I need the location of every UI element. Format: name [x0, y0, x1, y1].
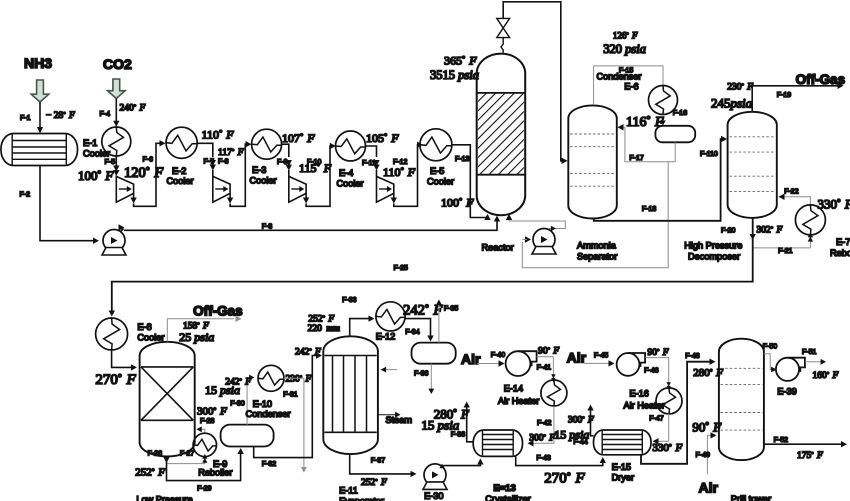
low pressure decomposer vessel	[140, 342, 195, 457]
svg-text:E-8: E-8	[137, 322, 151, 332]
svg-text:Cooler: Cooler	[167, 176, 194, 186]
svg-text:Reboiler: Reboiler	[830, 248, 850, 258]
svg-text:F-41: F-41	[537, 365, 552, 372]
wire pump P2 suction from drum	[522, 162, 668, 268]
blower E-39	[776, 358, 805, 381]
svg-text:High Pressure: High Pressure	[684, 241, 742, 251]
steam inlet stub	[381, 369, 397, 371]
wire air to E-16 blower	[584, 362, 610, 364]
svg-text:F-1: F-1	[20, 115, 31, 122]
svg-text:105° F: 105° F	[366, 131, 399, 145]
condenser E-6	[649, 86, 678, 115]
high pressure decomposer vessel	[728, 112, 777, 218]
svg-text:E-15: E-15	[612, 462, 631, 472]
svg-text:F-43: F-43	[536, 455, 551, 462]
svg-text:252° F: 252° F	[361, 478, 387, 488]
svg-text:E=13: E=13	[493, 483, 515, 494]
wire F-37	[350, 454, 412, 474]
wire F-19 off-gas	[752, 86, 838, 112]
svg-text:E-11: E-11	[339, 486, 358, 496]
wire F-29 LP bottoms	[167, 450, 241, 481]
svg-text:E-10: E-10	[253, 399, 272, 409]
reactor vessel	[477, 54, 526, 216]
svg-text:300° F: 300° F	[568, 416, 594, 426]
pump P2	[532, 229, 556, 255]
wire F-20 F-25 main recycle line	[112, 218, 753, 312]
svg-text:Ammonia: Ammonia	[577, 241, 617, 251]
dryer E-15	[594, 430, 652, 455]
svg-text:120° F: 120° F	[124, 165, 163, 181]
svg-text:F-4: F-4	[100, 111, 111, 118]
svg-text:Air Heater: Air Heater	[624, 401, 665, 411]
svg-text:E-5: E-5	[430, 166, 444, 176]
wire F-21 to E-7	[753, 241, 811, 248]
svg-text:F-110: F-110	[700, 151, 718, 158]
svg-text:F-36: F-36	[414, 371, 429, 378]
wire F-32 to evaporator	[254, 356, 317, 458]
svg-text:330° F: 330° F	[652, 442, 682, 454]
svg-text:Off-Gas: Off-Gas	[796, 72, 846, 87]
svg-text:365° F: 365° F	[444, 54, 477, 68]
svg-text:F-5: F-5	[105, 159, 116, 166]
svg-text:175° F: 175° F	[797, 451, 823, 461]
svg-text:NH3: NH3	[24, 55, 52, 71]
svg-text:F-28: F-28	[200, 418, 215, 425]
cooler E-2	[166, 127, 197, 158]
wire F-4 into E-1	[115, 99, 117, 127]
NH3 feed arrow	[31, 80, 49, 102]
svg-text:15 psia: 15 psia	[205, 383, 240, 397]
svg-text:F-18: F-18	[642, 206, 657, 213]
air heater E-16 coil	[656, 388, 682, 414]
svg-text:F-10: F-10	[307, 159, 322, 166]
svg-text:E-39: E-39	[777, 387, 796, 397]
wire C3 outlet to E-4	[305, 193, 307, 199]
svg-text:Off-Gas: Off-Gas	[193, 304, 243, 319]
wire F-44 vent	[591, 408, 594, 436]
svg-text:F-2: F-2	[20, 192, 31, 199]
svg-text:Dryer: Dryer	[612, 473, 634, 483]
wire F-17	[622, 127, 675, 161]
svg-text:220 mm: 220 mm	[308, 324, 340, 334]
svg-text:F-32: F-32	[262, 461, 277, 468]
CO2 feed arrow	[108, 79, 126, 99]
svg-text:100° F: 100° F	[78, 168, 114, 183]
svg-text:F-40: F-40	[491, 352, 506, 359]
wire F-15 separator overhead	[594, 66, 663, 105]
svg-text:240° F: 240° F	[120, 104, 146, 114]
svg-text:320 psia: 320 psia	[603, 42, 646, 56]
ammonia separator vessel	[568, 105, 617, 218]
svg-text:90° F: 90° F	[692, 420, 722, 435]
wire E-2 outlet	[197, 143, 213, 157]
wire E-3 outlet	[282, 144, 289, 157]
svg-text:F-29: F-29	[197, 486, 212, 493]
svg-text:15 psia: 15 psia	[421, 418, 459, 433]
svg-text:F-17: F-17	[629, 155, 644, 162]
wire E-30 discharge to crystallizer	[442, 460, 481, 467]
svg-text:3515 psia: 3515 psia	[430, 68, 479, 82]
blower E-16 fan	[617, 353, 646, 376]
reboiler E-7	[795, 205, 825, 235]
flash drum	[412, 343, 456, 364]
svg-text:160° F: 160° F	[813, 371, 839, 381]
svg-text:Decomposer: Decomposer	[688, 252, 740, 262]
wire C2 outlet to E-3	[229, 193, 231, 199]
wire reactor top to separator	[501, 38, 503, 53]
wire F-36	[430, 364, 432, 390]
svg-text:E-2: E-2	[172, 166, 186, 176]
blower E-14 fan	[506, 351, 537, 376]
svg-text:Prill tower: Prill tower	[731, 494, 771, 501]
svg-text:F-48: F-48	[685, 353, 700, 360]
wire F-35 vent	[438, 304, 440, 343]
svg-text:F-27: F-27	[180, 451, 195, 458]
svg-text:Evaporator: Evaporator	[339, 496, 384, 501]
svg-text:F-49: F-49	[696, 452, 711, 459]
condenser E-10	[258, 365, 284, 391]
svg-text:E-4: E-4	[339, 168, 353, 178]
svg-text:F-20: F-20	[721, 228, 736, 235]
svg-text:F-13: F-13	[455, 156, 470, 163]
steam outlet	[378, 414, 396, 416]
wire F-22 E-7 return	[782, 197, 810, 205]
svg-text:F-47: F-47	[649, 416, 664, 423]
LP decomposer internals X	[141, 366, 193, 368]
svg-text:126° F: 126° F	[613, 31, 638, 41]
wire F-50 to E-39	[764, 354, 773, 370]
svg-text:F-21: F-21	[778, 248, 793, 255]
node reactor bottom feeds	[509, 220, 566, 222]
reactor catalyst hatched section	[478, 93, 524, 175]
svg-text:Reactor: Reactor	[482, 243, 514, 253]
condensate drum	[655, 126, 695, 143]
wire E-6 to drum	[662, 115, 664, 123]
svg-text:F-3: F-3	[262, 224, 273, 231]
svg-text:F-50: F-50	[763, 344, 778, 351]
svg-text:E-6: E-6	[624, 82, 638, 92]
NH3 feed exchanger drum	[1, 134, 78, 166]
svg-text:CO2: CO2	[103, 56, 132, 72]
wire F-52 product	[764, 443, 842, 445]
compressor C1	[116, 176, 133, 202]
svg-text:230° F: 230° F	[286, 375, 312, 385]
svg-text:Cooler: Cooler	[427, 177, 454, 187]
wire F-5	[115, 156, 117, 167]
wire air to prill tower	[707, 435, 712, 474]
evaporator E-11 vessel	[323, 336, 378, 454]
svg-text:110° F: 110° F	[383, 165, 416, 179]
svg-text:230° F: 230° F	[727, 83, 753, 93]
svg-text:270° F: 270° F	[544, 471, 585, 487]
svg-text:Reboiler: Reboiler	[198, 468, 232, 478]
svg-text:E-30: E-30	[424, 491, 443, 501]
svg-text:Air: Air	[699, 480, 719, 496]
svg-text:25 psia: 25 psia	[179, 330, 214, 344]
svg-text:F-22: F-22	[784, 189, 799, 196]
valve on reactor feed	[497, 18, 510, 37]
svg-text:F-25: F-25	[394, 265, 409, 272]
cooler E-12	[376, 302, 405, 331]
svg-text:E-16: E-16	[629, 389, 648, 399]
svg-text:F-42: F-42	[537, 420, 552, 427]
evaporator tube internals	[325, 355, 377, 357]
svg-text:Air: Air	[567, 350, 587, 366]
svg-text:90° F: 90° F	[538, 347, 559, 357]
svg-text:F-46: F-46	[644, 368, 659, 375]
svg-text:Low Pressure: Low Pressure	[136, 495, 192, 501]
wire F-1 into exchanger	[39, 102, 41, 132]
prill tower vessel	[719, 339, 764, 460]
svg-text:F-16: F-16	[673, 110, 688, 117]
svg-text:300° F: 300° F	[197, 406, 227, 418]
wire pump P2 discharge	[549, 221, 565, 229]
svg-text:F-19: F-19	[777, 92, 792, 99]
wire E-9 return	[200, 429, 205, 433]
wire E-12 outlet to flash drum	[405, 319, 430, 337]
svg-text:110° F: 110° F	[202, 128, 235, 142]
svg-text:Condenser: Condenser	[246, 409, 291, 419]
svg-text:245psia: 245psia	[711, 96, 753, 111]
wire F-110	[594, 139, 722, 221]
svg-text:Cooler: Cooler	[337, 179, 364, 189]
reboiler E-9	[193, 433, 216, 456]
svg-text:F-8: F-8	[218, 159, 229, 166]
svg-text:Steam: Steam	[386, 415, 413, 425]
wire blower to heater	[537, 357, 554, 375]
svg-text:E-7: E-7	[836, 237, 850, 247]
svg-text:Cooler: Cooler	[83, 149, 110, 159]
svg-text:Separator: Separator	[577, 252, 617, 262]
svg-text:E-1: E-1	[83, 138, 97, 148]
svg-text:F-52: F-52	[774, 437, 789, 444]
cooler E-3	[252, 129, 282, 159]
svg-text:F-33: F-33	[342, 297, 357, 304]
wire dryer outlet to prill tower	[641, 362, 711, 464]
wire LP off-gas	[167, 319, 234, 342]
wire E-4 outlet	[366, 146, 377, 157]
wire crystallizer outlet to dryer	[516, 456, 603, 465]
svg-text:100° F: 100° F	[441, 196, 474, 210]
svg-text:F-12: F-12	[393, 159, 408, 166]
wire F-2	[40, 166, 95, 241]
svg-text:Crystallizer: Crystallizer	[485, 494, 530, 501]
E-10 condensate drum	[221, 425, 274, 447]
svg-text:F-44: F-44	[573, 439, 588, 446]
svg-text:300° F: 300° F	[529, 434, 555, 444]
wire E-8 to LP decomposer	[112, 350, 132, 367]
svg-text:107° F: 107° F	[282, 131, 315, 145]
svg-text:− 28° F: − 28° F	[46, 111, 75, 121]
svg-text:242° F: 242° F	[295, 348, 321, 358]
svg-text:Air: Air	[461, 351, 481, 367]
air heater E-14 coil	[541, 380, 567, 406]
svg-text:F-34: F-34	[405, 329, 420, 336]
wire F-33 to E-12	[350, 319, 370, 336]
svg-text:E-14: E-14	[504, 384, 523, 394]
wire F-30	[247, 378, 250, 425]
crystallizer E-13	[473, 430, 522, 456]
svg-text:F-37: F-37	[371, 458, 386, 465]
svg-text:Cooler: Cooler	[137, 333, 164, 343]
svg-text:330° F: 330° F	[818, 197, 850, 212]
wire F-38 vent	[467, 405, 474, 442]
compressor C2	[213, 176, 230, 202]
compressor C4	[377, 176, 394, 202]
svg-text:F-6: F-6	[143, 157, 154, 164]
wire to E-9	[167, 460, 205, 464]
wire F-3 pump discharge	[121, 229, 124, 232]
svg-text:F-38: F-38	[451, 432, 466, 439]
svg-text:270° F: 270° F	[95, 372, 136, 388]
wire E-14 heater to crystallizer	[531, 406, 554, 443]
svg-text:F-45: F-45	[594, 353, 609, 360]
svg-text:302° F: 302° F	[757, 226, 783, 236]
svg-text:E-3: E-3	[252, 165, 266, 175]
svg-text:117° F: 117° F	[218, 148, 244, 158]
cooler E-8	[96, 318, 128, 350]
cooler E-5	[420, 129, 452, 161]
wire E-5 outlet to reactor	[452, 145, 488, 218]
pump P1	[102, 230, 126, 256]
compressor C3	[289, 176, 306, 202]
svg-text:F-30: F-30	[230, 401, 245, 408]
cooler E-1	[102, 127, 131, 156]
svg-text:F-35: F-35	[444, 306, 459, 313]
wire E-16 heater to dryer	[658, 414, 669, 441]
svg-text:Cooler: Cooler	[250, 176, 277, 186]
wire C4 outlet to E-5	[393, 193, 395, 199]
svg-text:Condenser: Condenser	[597, 72, 642, 82]
svg-text:E-12: E-12	[376, 332, 395, 342]
wire E-10 outlet	[284, 378, 304, 468]
cooler E-4	[336, 131, 366, 161]
pump E-30	[423, 464, 447, 490]
svg-text:F-31: F-31	[283, 392, 298, 399]
svg-text:90° F: 90° F	[648, 348, 669, 358]
wire blower to heater	[645, 358, 669, 384]
svg-text:Air Heater: Air Heater	[498, 396, 539, 406]
svg-text:252° F: 252° F	[135, 467, 165, 479]
wire air to E-14 blower	[477, 363, 500, 365]
wire C1 outlet to E-2	[133, 193, 135, 199]
svg-text:F-51: F-51	[802, 349, 817, 356]
wire E-39 outlet	[805, 361, 821, 363]
svg-text:F-26: F-26	[148, 451, 163, 458]
